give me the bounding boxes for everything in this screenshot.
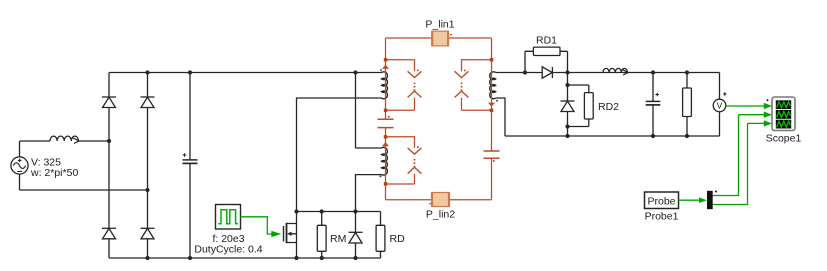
- magnetic node squares: [384, 58, 495, 186]
- wire bridge leg2: [147, 73, 149, 259]
- node junction dots: [107, 69, 689, 260]
- diode D7: [349, 212, 363, 259]
- resistor RD1: [525, 47, 568, 72]
- wire voltmeter to scope: [726, 103, 772, 109]
- wire demux out2 to scope: [713, 120, 772, 204]
- svg-text:DutyCycle: 0.4: DutyCycle: 0.4: [194, 243, 262, 255]
- transistor Q1 mosfet: [284, 212, 297, 259]
- voltage source V_ac: [11, 141, 28, 190]
- wire top bus: [109, 72, 382, 74]
- air gap G2: [484, 151, 500, 158]
- svg-text:Probe1: Probe1: [645, 211, 679, 223]
- wire bottom bus: [109, 257, 381, 259]
- magnetic core leg left: [385, 38, 387, 200]
- wire: [78, 140, 109, 142]
- wire probe to demux: [679, 197, 708, 203]
- svg-text:w: 2*pi*50: w: 2*pi*50: [30, 167, 78, 179]
- flux arrow W2: [382, 142, 389, 146]
- inductor L1: [50, 136, 79, 143]
- svg-text:RD2: RD2: [598, 101, 619, 113]
- svg-text:V: V: [717, 101, 723, 111]
- winding W1 electrical coil: [382, 72, 388, 99]
- svg-text:RD: RD: [390, 233, 406, 245]
- winding W2 electrical coil: [382, 147, 388, 175]
- svg-text:Probe: Probe: [647, 195, 675, 207]
- voltmeter Vm1: [713, 73, 726, 137]
- wire secondary bottom: [496, 98, 720, 136]
- capacitor C2: [646, 73, 661, 137]
- wire bridge leg1: [108, 73, 110, 259]
- wire clamp row: [297, 211, 381, 213]
- scope block Scope1: [767, 97, 796, 131]
- wire winding2 bottom down: [356, 175, 382, 212]
- wire: [20, 140, 51, 142]
- wire magnetic top run: [386, 37, 492, 39]
- diode D4: [141, 228, 155, 239]
- svg-text:P_lin2: P_lin2: [426, 209, 455, 221]
- wire gate signal: [241, 217, 282, 237]
- signal demux: [707, 191, 717, 210]
- diode D2: [141, 97, 155, 108]
- inductor L2: [603, 68, 628, 75]
- wire secondary top bus: [496, 72, 720, 74]
- svg-text:Scope1: Scope1: [766, 133, 802, 145]
- magnetic winding symbol WS1: [386, 60, 422, 111]
- wire demux out1 to scope: [713, 112, 772, 196]
- resistor RD: [376, 212, 385, 259]
- flux arrow W3: [488, 103, 495, 107]
- diode D1: [102, 97, 116, 108]
- svg-text:RD1: RD1: [536, 35, 557, 47]
- diode D6: [561, 73, 575, 137]
- diode D3: [102, 228, 116, 239]
- air gap G1: [378, 119, 394, 127]
- probe block Probe1: [645, 192, 679, 209]
- resistor RM: [317, 212, 326, 259]
- magnetic winding symbol WS2: [455, 60, 492, 111]
- flux arrow W1: [382, 65, 389, 69]
- svg-text:P_lin1: P_lin1: [425, 19, 454, 31]
- scope screen waveforms: [777, 102, 791, 127]
- wire magnetic bottom run: [386, 199, 492, 201]
- wire: [20, 189, 148, 191]
- wire winding1 bottom to drain: [297, 98, 382, 212]
- svg-text:RM: RM: [330, 233, 346, 245]
- wire bus to winding2 top: [356, 73, 382, 149]
- permeance P_lin2: [429, 193, 449, 207]
- permeance P_lin1: [432, 31, 452, 46]
- magnetic core leg right: [491, 38, 493, 200]
- magnetic winding symbol WS3: [386, 137, 422, 184]
- pulse generator block: [216, 205, 241, 230]
- resistor RD2: [568, 85, 594, 127]
- capacitor C1: [183, 73, 198, 259]
- diode D5: [542, 67, 552, 78]
- winding W3 electrical coil secondary: [490, 72, 496, 99]
- resistor Rload: [683, 73, 692, 137]
